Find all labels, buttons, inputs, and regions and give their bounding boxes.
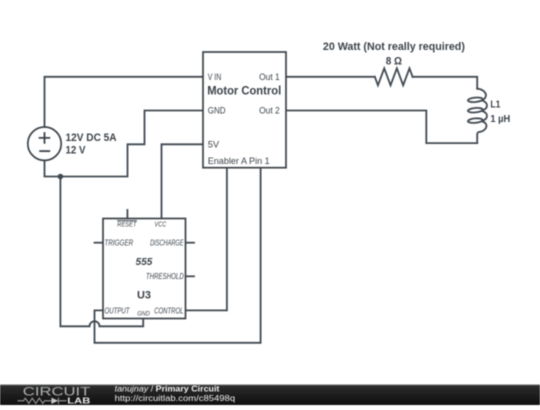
svg-text:OUTPUT: OUTPUT [105,306,131,315]
svg-text:Motor Control: Motor Control [207,85,281,98]
svg-text:GND: GND [137,310,150,317]
svg-text:12V DC 5A: 12V DC 5A [66,132,117,144]
555 TRIGGER stub [95,242,104,244]
inductor L1 coil bumps [477,89,487,143]
wire branch to 555 GND with hop [60,177,143,327]
wire 5V to 555 VCC [162,144,204,218]
svg-text:Out 2: Out 2 [259,106,280,116]
svg-text:U3: U3 [137,290,151,302]
svg-text:12 V: 12 V [66,145,87,157]
svg-text:555: 555 [136,257,153,268]
voltage source V1 circle [28,127,61,160]
junction dot [58,174,64,180]
555 DISCHARGE stub [186,242,195,244]
wire resistor to inductor top [413,77,478,89]
svg-text:DISCHARGE: DISCHARGE [150,239,184,248]
svg-text:THRESHOLD: THRESHOLD [146,272,184,281]
wire Motor Control bottom pin 2 to 555 OUTPUT [95,168,261,343]
svg-text:VCC: VCC [155,220,167,229]
svg-text:Enabler A Pin 1: Enabler A Pin 1 [208,156,270,166]
wire Out 1 to resistor [286,76,375,78]
wire Motor Control bottom pin 1 to 555 CONTROL [186,168,227,311]
CircuitLab logo diode [51,398,58,404]
svg-text:V IN: V IN [208,72,222,82]
voltage source plus sign [39,132,51,144]
wire V+ net: source top to V IN [45,77,204,127]
inductor L1 loop 1 [468,97,483,103]
CircuitLab logo resistor zigzag [18,398,52,403]
wire source bottom to Motor Control GND [45,111,204,177]
inductor L1 loop 2 [468,107,483,113]
svg-text:Out 1: Out 1 [259,72,280,82]
resistor R 8 ohm zigzag [375,68,413,85]
555 RESET stub [126,210,128,219]
Motor Control box U2 [203,52,286,168]
svg-text:20 Watt (Not really required): 20 Watt (Not really required) [323,41,465,53]
svg-text:5V: 5V [208,139,220,149]
wire inductor bottom to Out 2 [286,111,477,144]
555 THRESHOLD stub [186,275,195,277]
svg-text:http://circuitlab.com/c85498q: http://circuitlab.com/c85498q [115,393,236,403]
svg-text:LAB: LAB [67,396,90,405]
voltage source minus sign [39,150,50,152]
svg-text:CONTROL: CONTROL [154,306,183,315]
svg-text:TRIGGER: TRIGGER [105,239,134,248]
svg-text:L1: L1 [490,99,500,111]
555 timer box U3 [103,219,186,319]
svg-text:tanujnay / Primary Circuit: tanujnay / Primary Circuit [115,383,220,393]
svg-text:GND: GND [208,106,226,116]
svg-text:1 µH: 1 µH [490,113,510,125]
svg-text:8 Ω: 8 Ω [386,56,403,68]
inductor L1 loop 3 [468,118,483,124]
